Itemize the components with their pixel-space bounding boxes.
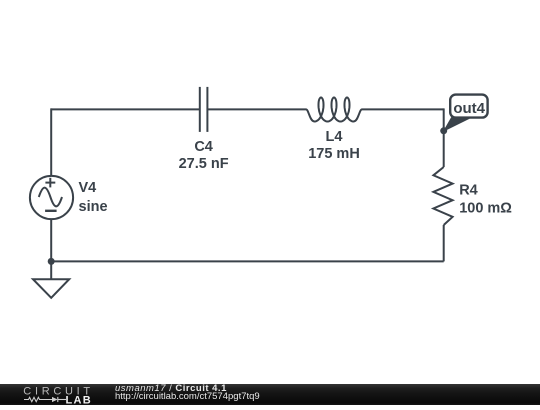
capacitor C4 [200, 87, 208, 132]
wire L4 to out4 corner [362, 108, 444, 110]
svg-text:C4: C4 [194, 139, 213, 155]
wire C4 to L4 [207, 108, 306, 110]
voltage source minus sign [45, 210, 57, 212]
svg-text:R4: R4 [459, 183, 478, 199]
ground symbol triangle [33, 279, 69, 298]
svg-text:V4: V4 [79, 180, 97, 196]
inductor L4 [306, 98, 362, 122]
wire R4 bottom to bottom wire [443, 225, 445, 261]
svg-text:LAB: LAB [66, 395, 93, 405]
out4 callout tail [444, 118, 468, 131]
wire V4 bottom to ground node [50, 219, 52, 261]
voltage source V4 labels [79, 180, 108, 215]
inductor L4 labels [308, 129, 360, 162]
wire top-left horizontal (V4 node to C4) [51, 108, 200, 110]
resistor R4 labels [459, 183, 512, 217]
footer bar [0, 384, 540, 405]
ground junction node dot [48, 258, 55, 265]
node out4 dot [440, 127, 447, 134]
svg-text:27.5 nF: 27.5 nF [179, 156, 229, 172]
voltage source V4 circle [30, 176, 73, 219]
wire bottom horizontal [51, 260, 444, 262]
footer credit line [115, 385, 227, 394]
circuitlab logo [0, 384, 100, 405]
svg-text:175 mH: 175 mH [308, 146, 360, 162]
resistor R4 [433, 167, 452, 225]
svg-text:100 mΩ: 100 mΩ [459, 201, 512, 217]
out4 callout box [450, 95, 487, 118]
voltage source sine wave [39, 188, 62, 207]
wire right vertical (out4 corner to R4 top) [443, 108, 445, 167]
svg-text:out4: out4 [453, 100, 485, 117]
capacitor C4 labels [179, 139, 229, 172]
voltage source plus sign [45, 178, 55, 188]
svg-text:L4: L4 [326, 129, 343, 145]
svg-text:sine: sine [79, 199, 108, 215]
wire ground stem [50, 261, 52, 279]
wire left vertical (top wire to V4 top) [50, 108, 52, 176]
